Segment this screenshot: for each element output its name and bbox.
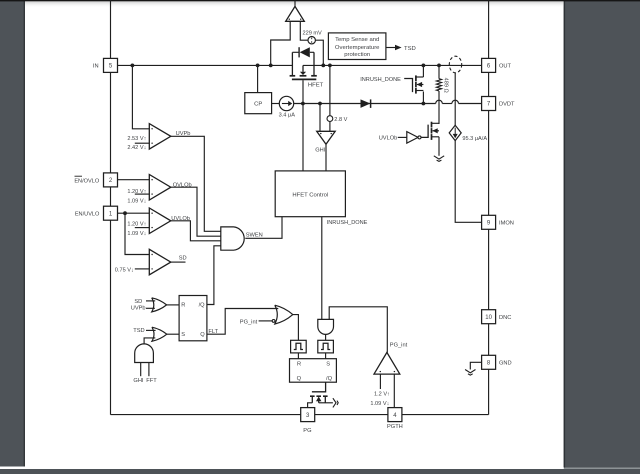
svg-text:Q: Q	[297, 376, 302, 382]
svg-text:229 mV: 229 mV	[303, 30, 323, 36]
svg-text:2.53 V↑: 2.53 V↑	[127, 136, 146, 142]
svg-text:EN/UVLO: EN/UVLO	[75, 212, 100, 218]
svg-text:489 Ω: 489 Ω	[442, 78, 448, 93]
svg-text:SWEN: SWEN	[246, 233, 263, 239]
svg-text:Overtemperature: Overtemperature	[335, 45, 380, 51]
svg-text:Temp Sense and: Temp Sense and	[335, 37, 379, 43]
svg-text:/Q: /Q	[199, 302, 206, 308]
svg-text:95.3 μA/A: 95.3 μA/A	[462, 136, 487, 142]
svg-text:PGTH: PGTH	[387, 424, 403, 430]
svg-text:GHI: GHI	[133, 378, 144, 384]
svg-text:IN: IN	[93, 64, 99, 70]
svg-text:1.20 V↑: 1.20 V↑	[127, 189, 146, 195]
svg-text:GHI: GHI	[315, 147, 326, 153]
svg-text:TSD: TSD	[133, 328, 144, 334]
svg-text:SD: SD	[134, 299, 142, 305]
svg-text:INRUSH_DONE: INRUSH_DONE	[327, 220, 368, 226]
svg-text:R: R	[181, 302, 185, 308]
svg-text:protection: protection	[344, 52, 370, 58]
svg-text:0.75 V↓: 0.75 V↓	[115, 267, 134, 273]
svg-text:2.42 V↓: 2.42 V↓	[127, 145, 146, 151]
svg-text:S: S	[181, 332, 185, 338]
svg-text:HFET: HFET	[308, 82, 324, 88]
svg-text:3.4 μA: 3.4 μA	[279, 112, 296, 118]
svg-text:SD: SD	[179, 256, 187, 262]
svg-text:UVPb: UVPb	[131, 305, 146, 311]
svg-text:/Q: /Q	[326, 376, 333, 382]
svg-text:OVLOb: OVLOb	[173, 183, 192, 189]
svg-text:FFT: FFT	[146, 378, 157, 384]
svg-text:Q: Q	[200, 332, 205, 338]
svg-text:DVDT: DVDT	[499, 102, 515, 108]
svg-text:PG_int: PG_int	[240, 320, 258, 326]
svg-text:2.8 V: 2.8 V	[334, 117, 347, 123]
svg-text:PG: PG	[303, 428, 311, 434]
svg-text:1.09 V↓: 1.09 V↓	[127, 231, 146, 237]
svg-text:INRUSH_DONE: INRUSH_DONE	[360, 77, 401, 83]
svg-text:HFET Control: HFET Control	[292, 192, 328, 198]
svg-text:PG_int: PG_int	[390, 342, 408, 348]
svg-text:EN/OVLO: EN/OVLO	[74, 178, 100, 184]
svg-text:GND: GND	[499, 361, 512, 367]
svg-text:UVLOb: UVLOb	[379, 136, 398, 142]
svg-text:R: R	[297, 362, 301, 368]
svg-text:TSD: TSD	[404, 46, 416, 52]
svg-text:S: S	[326, 362, 330, 368]
svg-text:1.2 V↑: 1.2 V↑	[374, 391, 390, 397]
svg-text:10: 10	[485, 315, 492, 321]
svg-text:OUT: OUT	[499, 64, 512, 70]
svg-text:1.20 V↑: 1.20 V↑	[127, 222, 146, 228]
svg-text:CP: CP	[254, 102, 262, 108]
svg-text:1.09 V↓: 1.09 V↓	[127, 198, 146, 204]
svg-text:DNC: DNC	[499, 315, 511, 321]
svg-text:IMON: IMON	[499, 221, 514, 227]
svg-text:1.09 V↓: 1.09 V↓	[370, 401, 389, 407]
